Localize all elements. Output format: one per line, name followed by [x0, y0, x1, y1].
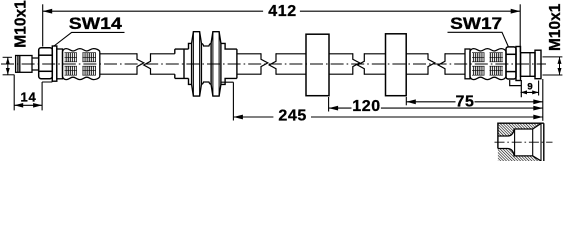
ferrule collar left — [57, 49, 63, 79]
crimp ferrule left — [63, 49, 100, 80]
hose segment 3 — [329, 54, 386, 74]
grommet notch between flanges — [201, 43, 211, 84]
section centerline — [495, 141, 553, 143]
dimension 9 line — [521, 91, 539, 93]
left thread OD dimension ticks — [3, 57, 14, 75]
SW17 underline and leader — [448, 32, 509, 47]
cavity inner lines — [514, 129, 516, 156]
svg-text:M10x1: M10x1 — [12, 0, 29, 48]
stud neck — [32, 58, 39, 70]
washer right — [516, 47, 521, 81]
right ferrule collar — [465, 49, 470, 79]
right shared extension line — [542, 79, 544, 121]
break symbol 1 — [137, 53, 151, 75]
svg-text:120: 120 — [352, 98, 381, 115]
break symbol 2 — [261, 53, 276, 75]
dimension 245 extension (L-jog from grommet) — [221, 82, 233, 120]
right thread dimension ticks — [543, 57, 563, 75]
section cavity (white) — [498, 123, 541, 160]
nut end flange — [535, 50, 541, 78]
svg-text:412: 412 — [268, 3, 297, 20]
svg-text:245: 245 — [278, 107, 307, 124]
dimension 9 extension jog bracket — [510, 80, 522, 97]
svg-text:9: 9 — [527, 81, 532, 92]
svg-text:M10x1: M10x1 — [547, 3, 564, 51]
svg-text:SW14: SW14 — [69, 15, 123, 33]
dimension 120 line — [329, 107, 352, 109]
grommet flange 1 — [192, 32, 202, 96]
break symbol 3 — [353, 53, 365, 75]
centerline main axis — [1, 63, 546, 65]
end ring white — [541, 123, 544, 162]
hose segment 1 — [100, 54, 175, 74]
dimension 14 line — [14, 104, 42, 106]
svg-text:SW17: SW17 — [450, 15, 502, 33]
hose segment 4 — [406, 54, 465, 74]
right thread dimension arrows — [558, 57, 562, 75]
dimension 412 line — [43, 10, 263, 12]
dimension 245 line — [233, 116, 273, 118]
dimension 75 extension — [405, 97, 407, 105]
grommet center body and shoulders — [189, 43, 237, 84]
hex nut SW14 — [39, 48, 53, 79]
svg-text:14: 14 — [20, 90, 36, 105]
hex nut SW17 — [506, 47, 516, 79]
left thread OD dimension arrows — [6, 57, 10, 75]
section detail hatched block — [495, 123, 553, 162]
nut inner line — [529, 53, 531, 77]
female nut body — [521, 53, 536, 77]
threaded stud M10x1 left — [16, 56, 32, 73]
hose segment 2 — [237, 54, 306, 74]
grommet body left collar — [175, 49, 189, 78]
SW14 underline and leader — [54, 32, 125, 46]
clip block 1 — [306, 34, 329, 95]
break symbol 4 — [428, 53, 445, 75]
block outline — [498, 123, 544, 161]
grommet flange 2 — [211, 32, 221, 96]
washer left — [52, 46, 57, 81]
clip block 2 — [386, 34, 407, 96]
crimp ferrule right — [470, 49, 506, 80]
svg-text:75: 75 — [456, 93, 475, 110]
dimension 120 extension — [328, 97, 330, 112]
dimension 75 line — [406, 101, 455, 103]
dimension 412 extension lines — [42, 4, 44, 46]
dimension 14 extension lines — [14, 75, 52, 111]
